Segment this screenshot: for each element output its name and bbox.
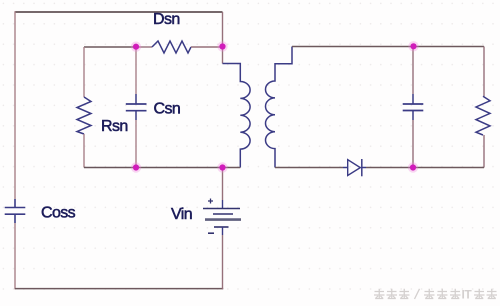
wire: node down to primary pin — [222, 47, 224, 64]
svg-text:Csn: Csn — [154, 101, 181, 118]
transformer primary winding (left) — [223, 64, 251, 168]
svg-text:Coss: Coss — [41, 205, 76, 222]
wire: snubber top (Rsn top to Csn node) — [84, 46, 136, 48]
wire: node to Dsn left lead — [136, 46, 152, 48]
node: secondary top (output cap top) — [408, 41, 418, 51]
wire: node to bottom-right corner — [413, 167, 484, 169]
wire: node down to battery top — [222, 168, 224, 201]
watermark (stylized gray strokes for CJK text + IT) — [374, 289, 497, 299]
resistor (output load, vertical) — [476, 96, 490, 135]
wire: bottom outer horizontal — [15, 288, 223, 290]
capacitor Csn (vertical) — [126, 47, 147, 168]
wire: left outer vertical lower (below Coss) — [14, 223, 16, 289]
capacitor Coss — [5, 199, 26, 223]
node: primary bottom junction — [217, 162, 227, 172]
wire: top outer horizontal — [15, 11, 223, 13]
battery Vin — [203, 199, 241, 236]
wire: secondary right vertical lower — [483, 135, 485, 168]
wire: battery bottom to outer bottom — [222, 235, 224, 289]
capacitor (output, vertical) — [403, 47, 424, 168]
wire: diode to node — [366, 167, 413, 169]
resistor-style element Dsn (horizontal zigzag) — [152, 41, 191, 53]
node: snubber bottom (Csn bottom junction) — [131, 162, 141, 172]
wire: secondary right vertical upper — [483, 47, 485, 97]
transformer secondary winding (right) — [265, 47, 292, 168]
svg-text:Vin: Vin — [171, 206, 192, 223]
node: snubber top left (Csn/Dsn junction) — [131, 42, 141, 52]
svg-text:Rsn: Rsn — [101, 118, 128, 135]
node: primary top (Dsn/transformer junction) — [217, 41, 227, 51]
wire: Dsn right lead to node — [191, 46, 223, 48]
diode (output rectifier) — [343, 159, 366, 176]
wire: top-right drop to node — [222, 12, 224, 47]
svg-text:IT: IT — [462, 288, 473, 302]
node: secondary bottom (output cap bottom) — [408, 162, 418, 172]
resistor Rsn (vertical) — [77, 47, 91, 168]
wire: left outer vertical upper (above Coss) — [14, 11, 16, 199]
wire: secondary bottom left (winding to diode) — [275, 167, 343, 169]
wire: primary winding bottom to node — [223, 167, 241, 169]
svg-text:Dsn: Dsn — [153, 11, 180, 28]
wire: secondary top horizontal — [292, 46, 484, 48]
wire: snubber/primary bottom horizontal — [84, 167, 223, 169]
